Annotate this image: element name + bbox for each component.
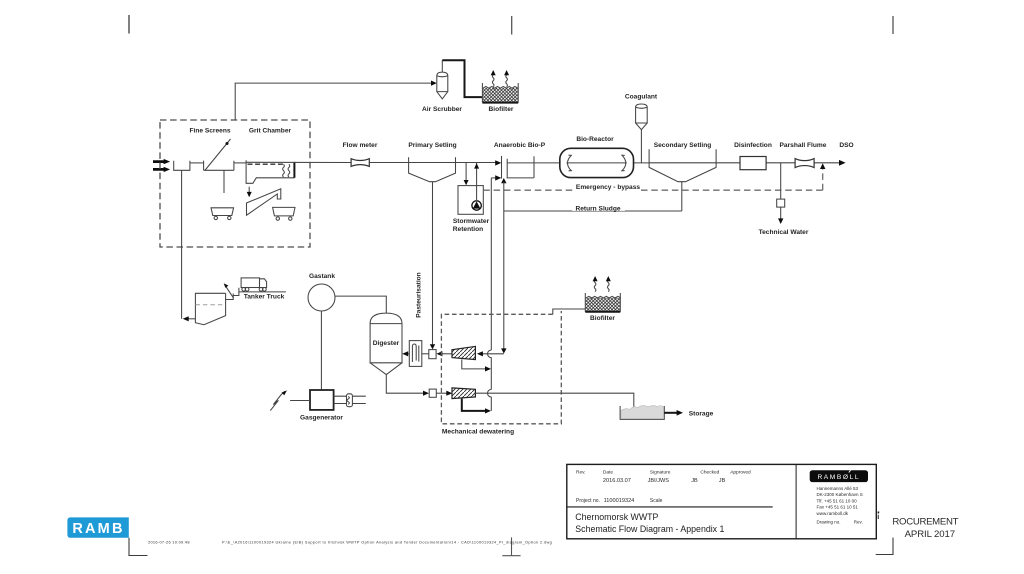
crop mark bottom right	[876, 538, 893, 555]
odour duct to biofilter 2	[553, 309, 586, 314]
outfall arrow	[839, 160, 846, 166]
centrate return arrow into bio-p	[491, 175, 501, 180]
svg-text:Rev.: Rev.	[576, 469, 586, 475]
svg-text:Storage: Storage	[689, 410, 714, 417]
svg-text:Approved: Approved	[730, 469, 751, 475]
generator exhaust connection	[334, 394, 366, 407]
screw press 2	[452, 388, 475, 399]
svg-text:DSO: DSO	[839, 142, 853, 149]
svg-text:JBI/JWS: JBI/JWS	[648, 478, 670, 484]
secondary settling tank	[649, 149, 716, 182]
title block header row	[576, 469, 751, 475]
tanker truck	[238, 278, 286, 292]
svg-text:Schematic Flow Diagram - Appen: Schematic Flow Diagram - Appendix 1	[575, 524, 724, 534]
pump 2 to screw 2 line	[436, 391, 452, 396]
svg-text:Signature: Signature	[650, 469, 671, 475]
grit conveyor	[247, 189, 281, 215]
ras-was vertical line	[503, 182, 505, 350]
screenings drain downpipe	[181, 170, 183, 318]
digester vessel	[370, 313, 402, 375]
svg-text:Chernomorsk WWTP: Chernomorsk WWTP	[575, 512, 658, 522]
svg-text:APRIL 2017: APRIL 2017	[905, 529, 955, 540]
svg-text:i: i	[877, 514, 879, 521]
stormwater retention tank	[458, 186, 483, 215]
coagulant dosing line	[640, 130, 642, 163]
centrate vertical line	[490, 178, 492, 411]
svg-text:Fax +45 51 61 10 51: Fax +45 51 61 10 51	[817, 505, 859, 510]
digester bottom outlet	[386, 375, 424, 394]
svg-text:Secondary Setling: Secondary Setling	[654, 142, 712, 149]
svg-text:Anaerobic Bio-P: Anaerobic Bio-P	[494, 142, 546, 149]
title block frame	[567, 464, 877, 538]
screenings drop line	[223, 170, 225, 193]
dewatering feed to pump arrow	[436, 351, 452, 356]
svg-text:Mechanical dewatering: Mechanical dewatering	[442, 428, 514, 435]
svg-text:Return Sludge: Return Sludge	[575, 205, 620, 212]
storage basin	[620, 406, 664, 420]
centrate hop 1	[488, 350, 492, 358]
electric power arrow	[270, 390, 310, 410]
svg-text:Biofilter: Biofilter	[489, 106, 514, 113]
svg-text:Gasgenerator: Gasgenerator	[300, 415, 343, 422]
crop mark bottom center	[502, 537, 520, 555]
svg-text:Tlf. +45 51 61 10 00: Tlf. +45 51 61 10 00	[817, 498, 858, 503]
fine screen bar	[205, 139, 231, 171]
svg-text:Biofilter: Biofilter	[590, 315, 615, 322]
svg-text:Fine Screens: Fine Screens	[189, 128, 230, 135]
svg-text:Flow meter: Flow meter	[343, 142, 378, 149]
ras up arrow into bio-p	[501, 178, 506, 183]
screw 2 centrate drain	[462, 399, 491, 414]
crop mark bottom left	[129, 538, 148, 556]
svg-text:Primary Setling: Primary Setling	[408, 142, 456, 149]
svg-text:ROCUREMENT: ROCUREMENT	[892, 517, 958, 528]
label Stormwater Retention	[453, 218, 490, 233]
title block project row	[576, 498, 663, 504]
title block divider line	[568, 506, 773, 508]
air scrubber vessel	[437, 60, 448, 99]
foul air duct to scrubber	[235, 81, 437, 121]
ramboll blue wordmark	[67, 517, 128, 537]
svg-text:Gastank: Gastank	[309, 273, 335, 280]
stormwater feed arrow	[464, 163, 469, 186]
ramboll logo	[810, 469, 868, 483]
svg-text:P:\E_\A2016\1100019324 Ukraine: P:\E_\A2016\1100019324 Ukraine (EIB) Sup…	[222, 540, 552, 544]
svg-text:JB: JB	[691, 478, 698, 484]
page number mark	[877, 512, 879, 521]
svg-text:JB: JB	[719, 478, 726, 484]
svg-text:Hannemanns Allé 53: Hannemanns Allé 53	[817, 486, 859, 491]
primary sludge downpipe	[432, 182, 434, 346]
svg-text:Drawing no.: Drawing no.	[817, 519, 841, 524]
centrate hop 2	[488, 389, 492, 397]
crop mark top center	[511, 16, 513, 35]
svg-text:Coagulant: Coagulant	[625, 94, 658, 101]
grit drop arrow	[247, 187, 252, 198]
grit chamber tank	[246, 160, 294, 183]
fine screens channel	[204, 161, 234, 171]
crop mark top left	[128, 15, 130, 34]
svg-text:Checked: Checked	[700, 469, 719, 475]
mechanical dewatering dashed enclosure	[441, 311, 561, 424]
anaerobic bio-p inlet arrow	[495, 160, 501, 165]
primary settling tank	[409, 157, 456, 182]
svg-text:Parshall Flume: Parshall Flume	[780, 142, 827, 149]
headworks dashed enclosure	[160, 120, 310, 247]
svg-text:Scale: Scale	[650, 498, 663, 504]
svg-text:Air Scrubber: Air Scrubber	[422, 106, 462, 113]
pump 2	[429, 389, 436, 397]
influent arrows	[153, 159, 170, 172]
svg-text:DK-2300 København S: DK-2300 København S	[817, 492, 863, 497]
svg-text:2016.03.07: 2016.03.07	[603, 478, 631, 484]
biofilter 1	[482, 83, 518, 103]
cake line to storage	[475, 393, 633, 407]
svg-text:RAMBØLL: RAMBØLL	[817, 474, 860, 481]
label Return Sludge	[572, 204, 625, 213]
return sludge line	[504, 210, 682, 212]
svg-text:Digester: Digester	[373, 340, 400, 347]
ramboll address block	[817, 486, 863, 525]
stormwater pump	[472, 201, 481, 210]
svg-text:Technical Water: Technical Water	[759, 229, 809, 236]
biofilter 1 vent arrows	[491, 70, 509, 87]
title block data row	[603, 478, 726, 484]
svg-text:Project no.: Project no.	[576, 498, 600, 504]
scrubber exhaust duct	[442, 60, 482, 97]
storage outlet arrow	[664, 410, 683, 416]
sludge reception tank	[195, 293, 225, 324]
parshall flume	[795, 159, 814, 168]
inlet channel 1	[174, 161, 190, 171]
was feed line and arrow into screw 1	[477, 348, 507, 356]
svg-text:Tanker Truck: Tanker Truck	[244, 294, 285, 301]
svg-text:Stormwater: Stormwater	[453, 218, 490, 225]
crop mark top right	[892, 16, 894, 34]
grit cart	[273, 207, 295, 220]
flow meter venturi	[351, 159, 369, 167]
biofilter 2 vent arrows	[593, 276, 611, 292]
svg-text:Retention: Retention	[453, 226, 483, 233]
secondary sludge downpipe	[681, 182, 683, 211]
emergency bypass dashed line	[483, 168, 822, 191]
screw press 1	[452, 346, 475, 359]
gas line to generator	[320, 311, 322, 390]
svg-text:2016-07-26 10:09:48: 2016-07-26 10:09:48	[148, 539, 190, 544]
svg-text:Date: Date	[603, 469, 613, 475]
svg-text:Emergency - bypass: Emergency - bypass	[576, 184, 640, 191]
main flow line	[246, 161, 840, 164]
he to pump line	[422, 353, 429, 355]
screenings cart	[211, 208, 234, 220]
svg-text:Rev.: Rev.	[854, 519, 863, 524]
disinfection basin	[740, 157, 766, 170]
wire lip 1	[190, 162, 204, 164]
anaerobic bio-p tank	[502, 156, 535, 179]
bypass arrow into main line	[820, 163, 825, 169]
screw 1 centrate drain	[462, 359, 491, 371]
sludge to digester arrow	[402, 351, 409, 356]
svg-text:Disinfection: Disinfection	[734, 142, 772, 149]
svg-text:www.ramboll.dk: www.ramboll.dk	[817, 511, 849, 516]
tanker discharge hose	[224, 283, 239, 299]
stormwater return line	[474, 163, 479, 202]
svg-text:1100019324: 1100019324	[604, 498, 635, 504]
digested sludge arrow into pump 2	[423, 391, 429, 396]
svg-text:Grit Chamber: Grit Chamber	[249, 128, 292, 135]
sludge reception feed arrow	[183, 316, 196, 321]
pump 1	[429, 350, 436, 359]
gastank sphere	[308, 284, 335, 311]
svg-text:RAMB: RAMB	[72, 521, 124, 537]
title block logo column divider	[795, 464, 797, 538]
heat exchanger	[409, 341, 422, 367]
svg-text:Pasteurisation: Pasteurisation	[416, 272, 423, 317]
gas line to digester	[335, 296, 386, 313]
bio-reactor	[560, 148, 634, 177]
coagulant vessel	[636, 104, 648, 130]
svg-text:Bio-Reactor: Bio-Reactor	[576, 136, 614, 143]
gasgenerator	[310, 390, 334, 410]
technical water branch	[777, 163, 785, 224]
primary sludge arrow into pump	[430, 344, 435, 349]
biofilter 2	[585, 293, 621, 312]
